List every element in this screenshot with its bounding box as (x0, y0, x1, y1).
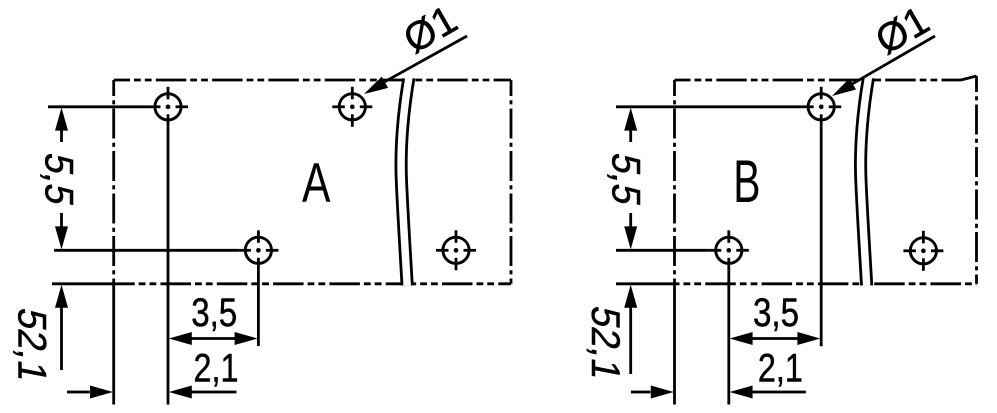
svg-text:2,1: 2,1 (194, 347, 239, 391)
extension line: bottom edge B (616, 282, 676, 285)
dimension 3,5 B (730, 332, 821, 345)
extension line: left edge A down (112, 284, 115, 405)
extension line: top hole row A (48, 105, 148, 108)
leader O1 B (849, 36, 935, 86)
dimension 5,5 A (55, 108, 68, 250)
extension line: bottom hole row B (616, 249, 709, 252)
extension line: ref hole A down (167, 127, 170, 405)
svg-text:5,5: 5,5 (604, 150, 650, 210)
hole B1 (801, 87, 841, 127)
svg-text:52,1: 52,1 (10, 305, 56, 387)
break line A (wavy cut lines) (396, 78, 404, 285)
extension line: bottom hole row A (54, 249, 238, 252)
break mask B (855, 78, 873, 285)
dimension 3,5 A (169, 332, 258, 345)
svg-text:A: A (302, 152, 330, 214)
svg-text:5,5: 5,5 (37, 150, 83, 210)
dimension 2,1 A (67, 386, 236, 399)
extension line: left edge B down (673, 284, 676, 405)
svg-text:3,5: 3,5 (753, 291, 799, 335)
break mask A (396, 78, 414, 285)
outline A (phantom rectangle) (114, 80, 511, 284)
svg-text:B: B (733, 148, 760, 215)
extension line: ref hole B down (820, 127, 823, 346)
hole B3 (903, 231, 943, 271)
dimension 2,1 B (631, 386, 806, 399)
extension line: second hole B down (727, 270, 730, 404)
svg-text:3,5: 3,5 (191, 291, 237, 335)
break line B (wavy cut lines) (855, 78, 863, 285)
hole B2 (709, 230, 749, 270)
extension line: bottom edge A (52, 282, 115, 285)
hole A3 (238, 230, 278, 270)
dimension 1,25 A (55, 285, 68, 370)
svg-text:2,1: 2,1 (758, 347, 803, 391)
outline B (phantom rectangle) (675, 76, 977, 284)
extension line: second hole A down (257, 270, 260, 346)
svg-text:52,1: 52,1 (583, 303, 629, 385)
leader O1 A (381, 36, 467, 84)
hole A4 (436, 230, 476, 270)
hole A1 (148, 87, 188, 127)
hole A2 (332, 87, 372, 127)
dimension 5,5 B (624, 108, 637, 250)
extension line: top hole row B (616, 105, 801, 108)
dimension 1,25 B (624, 285, 637, 374)
